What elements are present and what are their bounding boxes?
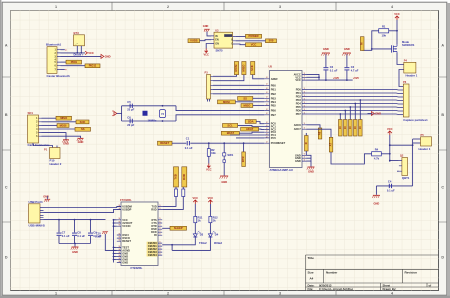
wire U3 out3 (236, 43, 246, 46)
ground (321, 47, 330, 56)
svg-text:GND: GND (203, 25, 209, 28)
svg-text:GN: GN (215, 42, 219, 45)
transistor Q2 body (402, 158, 408, 176)
svg-text:GND: GND (105, 55, 111, 59)
power port VCC (85, 51, 94, 55)
svg-text:C: C (5, 185, 8, 189)
wire xtal top (122, 105, 176, 107)
wire U3 out1 (236, 36, 246, 38)
svg-text:BDAT: BDAT (227, 131, 235, 135)
svg-text:Number: Number (326, 271, 338, 275)
capacitor C3 (344, 65, 358, 72)
wire xtal loop (121, 106, 123, 121)
svg-text:10k: 10k (381, 33, 386, 37)
svg-text:RXled: RXled (214, 241, 222, 245)
svg-text:D: D (441, 255, 444, 259)
wire header pin2 (413, 142, 421, 144)
wire P3 pin3 PB0 (213, 84, 264, 86)
svg-text:C: C (441, 185, 444, 189)
junction (389, 153, 391, 155)
svg-text:VCC: VCC (295, 78, 301, 82)
svg-text:GND: GND (221, 180, 227, 184)
junction (90, 219, 92, 221)
svg-text:VCC: VCC (88, 51, 94, 55)
resistor R6 (182, 189, 185, 197)
wire bus stub (114, 256, 117, 258)
wire vcc down (396, 20, 398, 44)
Q2 pins (399, 161, 402, 172)
svg-text:PB2: PB2 (271, 92, 277, 96)
resonator (143, 111, 147, 115)
svg-text:MISO: MISO (60, 116, 67, 120)
svg-text:C8: C8 (77, 230, 81, 234)
U4 right pin numbers (159, 205, 161, 256)
port SS2 (238, 96, 253, 100)
wire pin4 (61, 61, 67, 63)
wire PC2 (259, 128, 265, 130)
title block (306, 255, 439, 291)
wire cap2 lead bottom (74, 236, 76, 244)
svg-text:A: A (441, 43, 444, 47)
svg-text:A4: A4 (310, 277, 314, 281)
port SCK (76, 120, 89, 124)
connector USB pins (40, 208, 44, 220)
wire R2 top (208, 143, 210, 148)
U4 left pin numbers (119, 205, 121, 263)
svg-text:22 pF: 22 pF (127, 108, 134, 112)
wire PD1 (307, 92, 404, 95)
svg-text:C1: C1 (186, 137, 190, 141)
wire TXD port lead (175, 187, 177, 189)
svg-text:C5: C5 (127, 100, 131, 104)
svg-text:0.1 uF: 0.1 uF (387, 189, 395, 193)
svg-text:RXD: RXD (182, 174, 186, 180)
U5 left pin names (271, 77, 286, 145)
wire bus stub (114, 259, 117, 261)
svg-text:VCC: VCC (193, 196, 199, 200)
wire AREF (253, 75, 265, 79)
wire VCC net (61, 52, 86, 54)
svg-text:SD1: SD1 (28, 111, 34, 115)
resistor R1 (379, 25, 389, 38)
port net label vertical 4 (353, 120, 357, 137)
junction (74, 219, 76, 221)
svg-text:VCC: VCC (251, 43, 257, 47)
svg-text:TXD: TXD (174, 174, 178, 179)
svg-text:RESET: RESET (122, 239, 131, 243)
regulator U3 body (214, 32, 233, 48)
LED D3 (193, 231, 207, 245)
svg-text:22 pF: 22 pF (127, 123, 134, 127)
port ADC6 label (318, 128, 322, 139)
wire P3 pin1 (213, 75, 237, 77)
svg-text:BT3: BT3 (74, 31, 80, 35)
svg-text:RESET: RESET (160, 141, 169, 145)
wire to header1b (390, 144, 413, 146)
wire to switch (223, 143, 225, 153)
port TXD vertical (174, 167, 179, 187)
wire pin6 stub (61, 68, 65, 70)
wire MISO (42, 117, 57, 119)
U4 right pins (158, 206, 162, 255)
svg-text:EN: EN (215, 39, 219, 42)
wire R1 right (389, 30, 397, 32)
label C10 (95, 233, 102, 239)
wire USBDP (44, 209, 122, 212)
ground (307, 167, 315, 174)
wire PC3 (239, 132, 264, 133)
wire to header (33, 143, 53, 148)
header P5 body (421, 137, 432, 146)
power port GND right (372, 112, 382, 116)
junction (74, 243, 76, 245)
wire cap rail top (44, 219, 106, 221)
svg-text:0.1 uF: 0.1 uF (330, 68, 338, 72)
resistor R4 (372, 148, 382, 161)
junction (76, 52, 78, 54)
wire Q2 pin3 (397, 170, 399, 172)
junction (113, 253, 115, 255)
svg-text:ADAT: ADAT (246, 127, 254, 131)
port 5V (266, 39, 277, 43)
capacitor C5 (130, 104, 132, 108)
U5 right pin numbers (304, 73, 306, 162)
ground (62, 140, 69, 146)
wire xtal gnd (117, 112, 122, 114)
port R vertical (304, 136, 308, 152)
svg-text:of: of (429, 283, 432, 287)
svg-text:1: 1 (55, 5, 57, 9)
power port GND right (101, 54, 111, 58)
wire Rport bottom (305, 151, 307, 155)
wire R1 left (362, 31, 379, 51)
wire switch link (223, 156, 225, 160)
wire R4 right (381, 153, 390, 155)
svg-text:C4: C4 (388, 179, 392, 183)
wire D3 to CBUS0 (162, 237, 195, 245)
connector J4 body (403, 84, 409, 117)
port MISO vertical (241, 62, 246, 75)
capacitor C4 (387, 179, 395, 192)
wire VUSB to U3 (200, 40, 211, 41)
capacitor C2 (323, 65, 337, 72)
power port VCC top (394, 12, 400, 20)
svg-text:PD7: PD7 (296, 112, 302, 116)
svg-text:VCCIO: VCCIO (122, 224, 130, 228)
svg-text:PD2: PD2 (296, 95, 302, 99)
wire P3 gnd stub (207, 99, 209, 102)
port VUSB (188, 39, 200, 43)
connector USB Port1 body (29, 204, 41, 223)
svg-text:POWER: POWER (248, 34, 258, 38)
junction (113, 247, 115, 249)
port A_DATA (241, 127, 259, 131)
port ADC7 label (329, 137, 333, 152)
wire PD2 (307, 96, 404, 99)
wire net stub 2 (344, 111, 346, 120)
svg-text:MOSI: MOSI (60, 123, 67, 127)
wire gnd to U3 (207, 32, 211, 36)
wire bus stub (114, 225, 117, 227)
svg-text:GND: GND (122, 261, 128, 265)
port PIO9 (66, 60, 82, 64)
svg-text:P5: P5 (421, 133, 425, 137)
junction (162, 105, 164, 107)
svg-text:PB4: PB4 (271, 100, 277, 104)
svg-text:TXled: TXled (199, 241, 207, 245)
connector SD1 pin numbers (36, 117, 38, 138)
wire xtal bottom (122, 120, 176, 122)
junction (171, 244, 173, 246)
wire VCC stub1 (307, 76, 320, 78)
svg-text:VCC: VCC (394, 12, 400, 16)
wire P3 pin4 PB1 (213, 88, 264, 90)
wire C3 top (346, 54, 348, 67)
svg-text:GND: GND (78, 140, 84, 144)
wire Q1 source (397, 53, 404, 65)
wire header1b vertical (412, 139, 414, 186)
port Mode vertical (360, 37, 364, 51)
LED D4 (208, 231, 222, 245)
junction (208, 142, 210, 144)
port SS (75, 127, 91, 131)
wire MOSI (42, 124, 58, 126)
wire PB5 (253, 104, 264, 106)
ground (77, 138, 84, 144)
svg-text:MISO: MISO (241, 65, 245, 72)
svg-text:1: 1 (55, 292, 57, 296)
connector J4 pins (402, 87, 404, 115)
wire D4 to CBUS1 (172, 237, 210, 250)
port VCC5 (246, 43, 262, 47)
junction (113, 225, 115, 227)
svg-text:PD4: PD4 (296, 102, 302, 106)
resistor R11 (194, 216, 203, 223)
wire DSR (162, 227, 170, 229)
wire P3 pin2 (213, 75, 244, 81)
svg-text:Bluetooth1: Bluetooth1 (46, 43, 61, 47)
svg-text:PC5: PC5 (271, 136, 277, 140)
svg-text:USB-MINI-B: USB-MINI-B (29, 223, 45, 227)
svg-text:U3: U3 (215, 28, 219, 32)
svg-text:16MHz: 16MHz (148, 118, 157, 122)
port net label vertical 1 (338, 120, 342, 137)
wire bus stub (114, 222, 117, 224)
ground port left (112, 111, 117, 116)
svg-text:IO: IO (338, 126, 342, 129)
switch SW1 (223, 153, 234, 163)
wire gnd arrow stub (368, 113, 372, 115)
U3 highlighted name (224, 34, 232, 37)
wire SS (42, 128, 76, 130)
svg-text:SS: SS (243, 96, 247, 100)
svg-text:Drawn By:: Drawn By: (383, 287, 397, 291)
wire header pin1 (413, 138, 421, 140)
svg-text:Header 2: Header 2 (50, 162, 62, 166)
junction (113, 259, 115, 261)
svg-text:A7: A7 (329, 142, 333, 146)
U4 left pin names (122, 204, 133, 264)
wire RXD to U4 (162, 197, 183, 210)
wire pin5 (61, 65, 86, 67)
capacitor C8 (72, 230, 85, 237)
svg-text:ADC6: ADC6 (294, 123, 302, 127)
svg-text:10k: 10k (211, 151, 216, 155)
svg-text:2: 2 (167, 292, 169, 296)
wire to gnd (74, 244, 76, 247)
wire AGND (105, 234, 117, 250)
junction (113, 222, 115, 224)
junction (325, 79, 327, 81)
svg-text:PD3: PD3 (296, 98, 302, 102)
power port VCC (208, 196, 214, 204)
svg-text:P4: P4 (404, 59, 408, 63)
svg-text:PB1: PB1 (271, 87, 277, 91)
port RXD vertical (182, 167, 187, 187)
wire net stub 4 (354, 104, 356, 120)
svg-text:PB7: PB7 (271, 113, 277, 117)
wire xtal right top (176, 106, 264, 111)
svg-text:IN: IN (215, 35, 218, 38)
wire CBUS joint (171, 245, 173, 251)
junction (339, 113, 341, 115)
junction (389, 160, 391, 162)
junction (162, 120, 164, 122)
svg-text:GND: GND (323, 47, 329, 51)
svg-text:SDA: SDA (248, 119, 254, 123)
capacitor C1 (185, 137, 193, 150)
svg-text:5V0: 5V0 (269, 39, 274, 43)
wire SCK (42, 121, 77, 123)
svg-text:IO: IO (343, 126, 347, 129)
svg-text:P6: P6 (403, 80, 407, 84)
op-amp U4 FT232RL body (121, 202, 158, 266)
svg-text:Diode +: Diode + (74, 52, 85, 56)
wire to DTR port (243, 143, 245, 152)
junction (412, 144, 414, 146)
svg-text:R: R (304, 142, 308, 144)
power port VCC (387, 127, 393, 135)
svg-text:VCC: VCC (203, 53, 209, 57)
power port VCC below U3 (203, 49, 209, 57)
svg-text:D4: D4 (215, 232, 219, 236)
resistor R5 (175, 189, 178, 197)
wire bus stub (114, 249, 117, 251)
resistor R2 (207, 148, 216, 157)
svg-text:IO: IO (358, 126, 362, 129)
wire P3 gnd stub2 (209, 99, 211, 102)
svg-text:1k: 1k (198, 219, 201, 223)
svg-text:_~: _~ (74, 43, 78, 46)
svg-text:Header 1: Header 1 (419, 147, 431, 151)
wire bus stub (114, 253, 117, 255)
junction (113, 256, 115, 258)
port MISO2 (241, 103, 253, 107)
svg-text:SCK: SCK (250, 65, 254, 71)
svg-text:Capture particles1: Capture particles1 (403, 118, 428, 122)
junction (80, 52, 82, 54)
wire PB3 (253, 97, 264, 99)
ground above USB (43, 196, 50, 202)
U5 right pins (302, 74, 307, 161)
svg-text:USBDP: USBDP (122, 207, 131, 211)
wire RXD port lead (182, 187, 184, 189)
svg-text:RXD: RXD (151, 207, 157, 211)
svg-text:Title: Title (308, 256, 315, 260)
wire bus stub (114, 219, 117, 221)
svg-text:4.7 uF: 4.7 uF (351, 68, 359, 72)
wire R11 to D3 (194, 223, 196, 234)
wire pin1 stub (61, 49, 65, 51)
svg-text:DTR: DTR (241, 156, 245, 162)
svg-text:2: 2 (167, 5, 169, 9)
svg-text:C6: C6 (127, 115, 131, 119)
svg-text:SS: SS (81, 127, 85, 131)
junction (223, 142, 225, 144)
port RESET (158, 141, 173, 145)
svg-text:CBUS4: CBUS4 (148, 253, 157, 257)
svg-text:A: A (5, 43, 8, 47)
junction (243, 142, 245, 144)
U5 left pins (264, 79, 269, 143)
wire R12 to D4 (209, 223, 211, 234)
wire gnd stub mid (307, 157, 312, 159)
ground (372, 195, 380, 198)
svg-text:SCK: SCK (80, 120, 86, 124)
U5 left pin numbers (266, 77, 268, 143)
svg-text:Header 1: Header 1 (406, 74, 418, 78)
port DSR net (170, 226, 187, 230)
ground AGND (102, 232, 108, 234)
wire vcc to U3 (206, 44, 211, 49)
wire R2 bottom (208, 156, 210, 163)
connector P3 body (207, 75, 211, 100)
svg-text:PD5: PD5 (296, 105, 302, 109)
port VBAT (246, 34, 262, 38)
wire PC1 (238, 125, 265, 126)
wire PD5 (307, 106, 404, 109)
svg-text:A6: A6 (318, 131, 322, 135)
wire bus stub (114, 246, 117, 248)
wire Diode+ net (61, 55, 102, 57)
svg-text:0.1 uF: 0.1 uF (185, 146, 193, 150)
wire xtal right bottom (176, 115, 264, 121)
svg-text:PD1: PD1 (296, 91, 302, 95)
capacitor C7 (57, 230, 70, 237)
junction (389, 144, 391, 146)
svg-text:SN75: SN75 (216, 48, 223, 52)
svg-text:SCL: SCL (227, 123, 233, 127)
U3 pin names (215, 35, 233, 46)
junction (359, 99, 361, 101)
svg-text:R1: R1 (382, 25, 386, 29)
resistor R12 (209, 216, 218, 223)
svg-text:SLEEP: SLEEP (174, 226, 183, 230)
wire P3 pin5 PB2 (213, 93, 264, 95)
U3 pins right (233, 37, 236, 45)
svg-text:+5V0: +5V0 (353, 77, 360, 80)
svg-text:U5: U5 (269, 64, 273, 68)
wire net stub 5 (359, 100, 361, 120)
svg-text:C3: C3 (351, 65, 355, 69)
connector P3 pins (211, 76, 214, 94)
wire cap3 lead bottom (90, 236, 92, 244)
wire gnd down (310, 161, 312, 166)
port MISO (56, 116, 72, 120)
svg-text:0.1uF: 0.1uF (95, 236, 102, 239)
svg-text:File:: File: (308, 287, 314, 291)
wire ADC6 (307, 125, 321, 128)
